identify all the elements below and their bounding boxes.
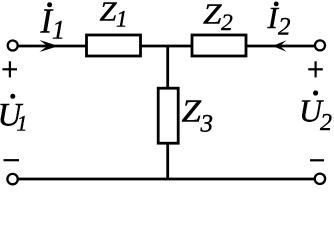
impedance Z3 [158,88,178,143]
terminal left bottom [7,174,17,184]
polarity minus right [310,159,324,161]
svg-text:1: 1 [17,110,28,135]
terminal right top [315,40,325,50]
svg-text:1: 1 [116,7,128,32]
wire: bottom rail [18,178,315,181]
svg-text:Z: Z [182,93,203,129]
label Z1 [100,0,128,32]
label U2 [299,90,332,136]
svg-text:2: 2 [221,10,233,36]
label Z2 [203,0,233,36]
wire: left top rail [18,45,87,48]
current arrow I1 [40,40,59,52]
label Z3 [182,93,214,138]
label I1 [40,2,66,44]
terminal right bottom [315,174,325,184]
current arrow I2 [273,40,287,51]
svg-text:1: 1 [52,16,65,45]
svg-text:Z: Z [203,0,222,31]
label U1 [0,94,28,136]
terminal left top [8,41,18,51]
wire: Z3 to bottom rail [166,143,169,179]
svg-text:Z: Z [100,0,118,27]
polarity minus left [4,159,20,161]
wire: T junction vertical drop [166,46,169,89]
wire: Z1 to Z2 [141,45,193,48]
polarity plus right [308,61,323,77]
label I2 [267,0,291,40]
impedance Z2 [192,35,246,56]
wire: Z2 to right terminal [246,45,315,48]
svg-text:2: 2 [278,13,291,40]
polarity plus left [2,61,17,77]
impedance Z1 [87,35,141,56]
svg-text:2: 2 [320,110,332,136]
svg-text:3: 3 [200,111,214,138]
